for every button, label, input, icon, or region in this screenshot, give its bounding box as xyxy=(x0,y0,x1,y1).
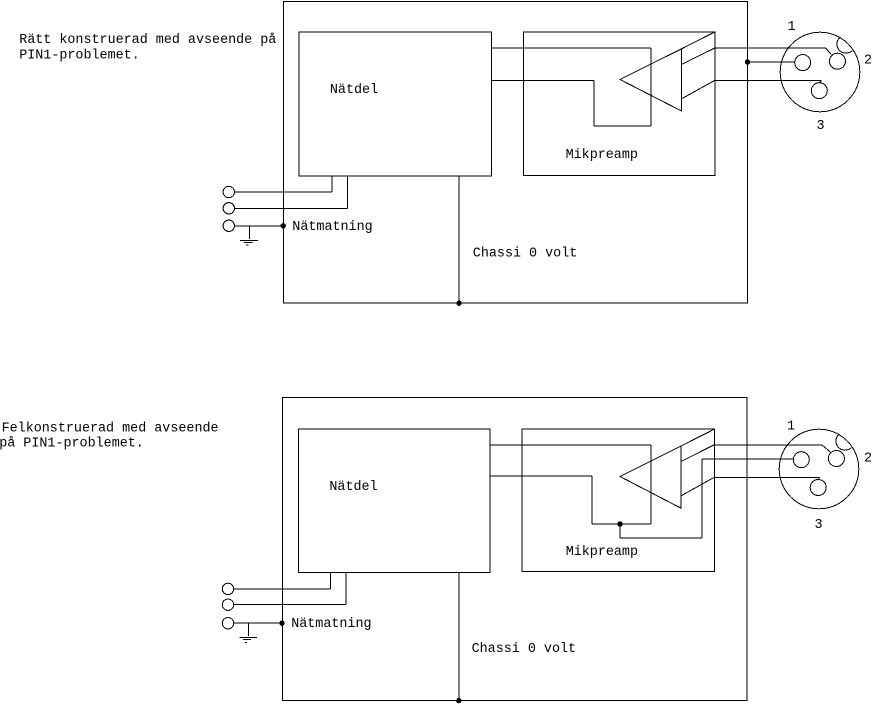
svg-text:2: 2 xyxy=(864,452,872,467)
XLR connector J2 shell (top) xyxy=(780,32,860,112)
wire Nätdel 0V to chassis (bottom) xyxy=(458,572,460,700)
wire mains L vertical (top) xyxy=(331,176,333,192)
wire pin1 to chassis (top) xyxy=(748,61,795,63)
wire op-amp input- slant (bottom) xyxy=(681,477,714,496)
ground bar 1 (top) xyxy=(240,239,258,241)
mains terminal N (top) xyxy=(223,203,234,214)
wire op-amp input- slant (top) xyxy=(681,80,715,99)
svg-text:Rätt konstruerad med avseende: Rätt konstruerad med avseende på xyxy=(19,33,276,48)
wire pin1 drop from junction (bottom) xyxy=(619,524,621,538)
ground stem (bottom) xyxy=(247,623,249,636)
wire supply loop left vertical (bottom) xyxy=(591,476,593,524)
mains terminal PE (top) xyxy=(223,220,234,231)
XLR pin 1 (top) xyxy=(795,55,811,71)
Nätdel power-supply box U4 (bottom) xyxy=(298,429,490,572)
wire mains N horizontal (bottom) xyxy=(234,604,347,606)
svg-text:Mikpreamp: Mikpreamp xyxy=(566,545,638,560)
wire supply loop right vertical (top) xyxy=(650,48,652,126)
svg-text:PIN1-problemet.: PIN1-problemet. xyxy=(19,49,140,64)
mains terminal N (bottom) xyxy=(222,599,233,610)
wire pin3 signal cold (bottom) xyxy=(714,476,819,478)
wire mains N vertical (bottom) xyxy=(345,572,347,604)
XLR pin 3 (top) xyxy=(811,83,827,99)
wire mains L horizontal (top) xyxy=(235,191,333,193)
ground bar 3 (bottom) xyxy=(245,641,247,643)
svg-text:1: 1 xyxy=(787,420,795,435)
wire mains PE to chassis (top) xyxy=(235,225,284,227)
ground bar 3 (top) xyxy=(246,244,248,246)
svg-text:Nätdel: Nätdel xyxy=(330,83,378,98)
wire supply 0V Nätdel to preamp (top) xyxy=(491,80,594,82)
wire mains N horizontal (top) xyxy=(235,207,348,209)
svg-text:Chassi 0 volt: Chassi 0 volt xyxy=(472,642,576,657)
wire pin3 signal cold (top) xyxy=(715,79,821,81)
wire mains L vertical (bottom) xyxy=(329,572,331,589)
wire supply loop bottom (top) xyxy=(594,125,651,127)
wire pin2 signal hot (top) xyxy=(715,47,826,49)
chassis enclosure box (top) xyxy=(284,2,748,304)
Mikpreamp box U2 (top) xyxy=(524,32,715,176)
wire supply+ Nätdel to preamp (top) xyxy=(491,47,651,49)
wire pin3 stub (bottom) xyxy=(818,477,819,480)
XLR pin 1 (bottom) xyxy=(793,452,809,468)
wire mains PE to chassis (bottom) xyxy=(234,622,283,624)
ground bar 2 (top) xyxy=(244,242,252,244)
junction PE-chassis Nätmatning (bottom) xyxy=(279,621,284,626)
wire mains N vertical (top) xyxy=(347,176,349,208)
chassis enclosure box (bottom) xyxy=(282,397,746,700)
junction 0V-chassis (top) xyxy=(456,301,461,306)
XLR pin 2 (bottom) xyxy=(828,451,844,467)
wire pin3 stub (top) xyxy=(819,80,821,83)
wire supply loop bottom (bottom) xyxy=(592,523,651,525)
svg-text:Mikpreamp: Mikpreamp xyxy=(566,148,638,163)
svg-text:1: 1 xyxy=(788,20,796,35)
Nätdel power-supply box U1 (top) xyxy=(299,32,491,176)
svg-text:på PIN1-problemet.: på PIN1-problemet. xyxy=(0,436,144,451)
wire supply loop right vertical (bottom) xyxy=(650,445,652,524)
XLR connector J4 shell (bottom) xyxy=(779,429,859,509)
mains terminal L (bottom) xyxy=(222,583,233,594)
junction pin1-to-chassis (top) xyxy=(745,59,750,64)
svg-text:Nätmatning: Nätmatning xyxy=(292,220,372,235)
wire mains L horizontal (bottom) xyxy=(234,588,331,590)
wire supply+ Nätdel to preamp (bottom) xyxy=(490,444,651,446)
ground bar 2 (bottom) xyxy=(243,639,251,641)
wire pin1 internal riser (bottom) xyxy=(701,459,703,538)
wire pin2 signal hot (bottom) xyxy=(714,444,822,446)
Mikpreamp box U5 (bottom) xyxy=(522,429,714,571)
wire op-amp input+ slant (top) xyxy=(681,48,715,65)
XLR keyway notch (top) xyxy=(837,38,852,54)
svg-text:Chassi 0 volt: Chassi 0 volt xyxy=(473,246,577,261)
svg-text:Felkonstruerad med avseende: Felkonstruerad med avseende xyxy=(2,421,219,436)
junction PE-chassis Nätmatning (top) xyxy=(281,223,286,228)
svg-text:Nätdel: Nätdel xyxy=(329,480,377,495)
svg-text:3: 3 xyxy=(815,518,823,533)
svg-text:2: 2 xyxy=(864,54,872,69)
wire supply loop left vertical (top) xyxy=(593,81,595,126)
junction signal-0V on supply loop (bottom) xyxy=(617,521,622,526)
wire pin2 slant stub (top) xyxy=(826,48,832,55)
op-amp U3 (top) xyxy=(620,49,681,111)
op-amp U6 (bottom) xyxy=(620,446,681,508)
ground stem (top) xyxy=(248,226,250,239)
wire supply 0V Nätdel to preamp (bottom) xyxy=(490,475,592,477)
wire slant extension of op-amp top edge (bottom) xyxy=(681,429,714,446)
junction 0V-chassis (bottom) xyxy=(456,698,461,703)
mains terminal L (top) xyxy=(223,186,234,197)
ground bar 1 (bottom) xyxy=(239,636,257,638)
mains terminal PE (bottom) xyxy=(222,618,233,629)
XLR pin 2 (top) xyxy=(829,53,845,69)
wire Nätdel 0V to chassis (top) xyxy=(458,176,460,303)
wire pin1 internal horizontal (bottom) xyxy=(620,537,702,539)
wire pin1 to XLR (bottom) xyxy=(702,458,794,460)
svg-text:3: 3 xyxy=(817,119,825,134)
wire slant extension of op-amp top edge (top) xyxy=(681,32,715,49)
svg-text:Nätmatning: Nätmatning xyxy=(291,617,371,632)
wire op-amp input+ slant (bottom) xyxy=(681,445,714,462)
wire pin2 slant stub (bottom) xyxy=(822,445,831,452)
XLR pin 3 (bottom) xyxy=(810,480,826,496)
XLR keyway notch (bottom) xyxy=(836,435,851,451)
